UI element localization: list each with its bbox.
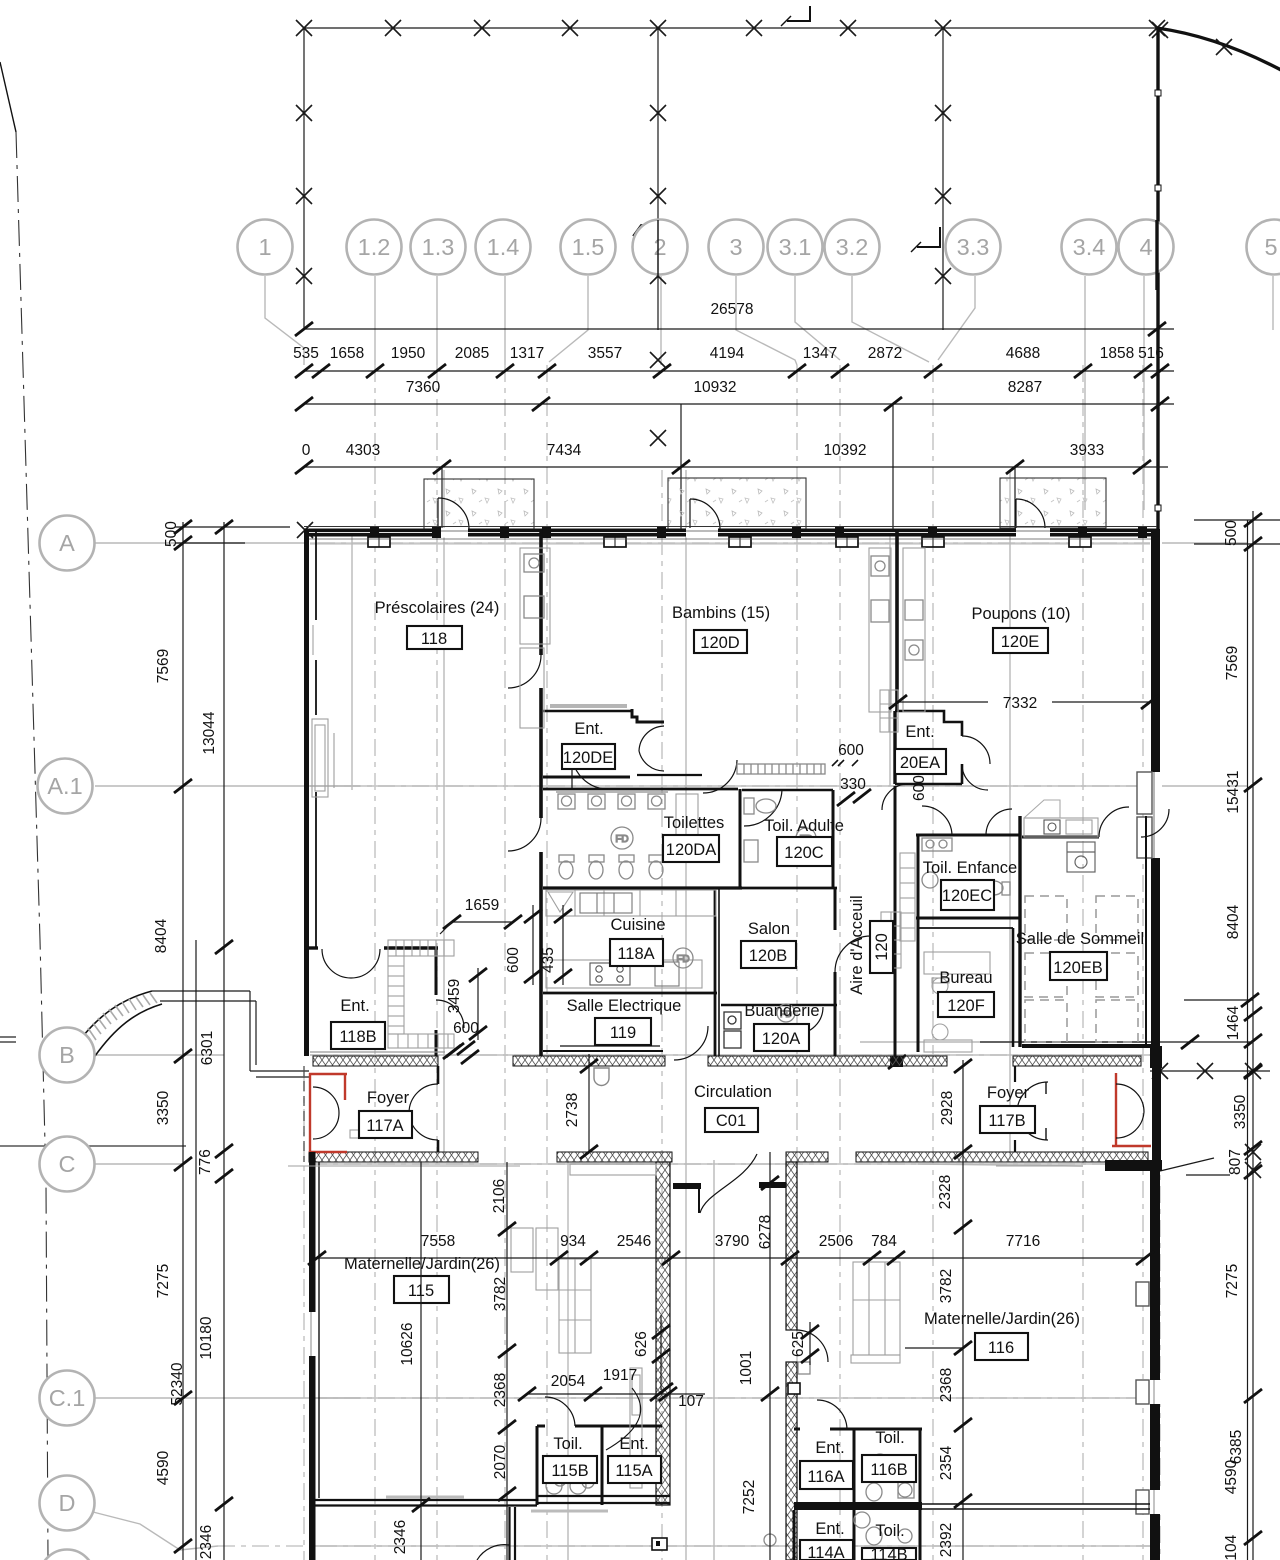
bubble 3.2 leader	[852, 276, 929, 362]
svg-text:4303: 4303	[346, 442, 380, 459]
west exterior wall	[304, 529, 309, 1056]
svg-text:15431: 15431	[1225, 770, 1242, 813]
svg-text:2928: 2928	[939, 1091, 956, 1125]
svg-text:3350: 3350	[155, 1090, 172, 1125]
svg-text:120: 120	[873, 933, 891, 961]
row bubble A.1	[38, 759, 93, 814]
grid bubble 4	[1119, 220, 1174, 275]
svg-text:114B: 114B	[870, 1546, 907, 1560]
svg-text:120F: 120F	[947, 997, 985, 1015]
door arcs 120DE butterfly	[639, 726, 664, 771]
doors 117A west	[313, 1087, 339, 1139]
Toil Adulte 120C walls	[742, 789, 833, 792]
bubble 2 leader	[660, 276, 662, 365]
row A.1 right gray	[1162, 785, 1248, 787]
dim 2054 1917 107	[527, 1393, 705, 1395]
row C leader gray	[95, 1163, 181, 1165]
row C.1 grid dashed	[310, 1397, 1150, 1399]
svg-text:934: 934	[560, 1233, 586, 1250]
row C right gray	[918, 1164, 1083, 1166]
vertical grid line 1.2	[374, 365, 376, 1560]
svg-text:625: 625	[790, 1331, 807, 1357]
door arc Bambins south	[703, 760, 737, 793]
crib icon 120EB	[1067, 842, 1095, 872]
svg-text:2346: 2346	[198, 1525, 215, 1559]
svg-text:2346: 2346	[392, 1520, 409, 1554]
svg-text:116A: 116A	[807, 1468, 844, 1486]
svg-text:20EA: 20EA	[900, 754, 940, 772]
svg-text:3933: 3933	[1070, 442, 1104, 459]
door arc below D	[477, 1545, 509, 1560]
door arcs 20EA	[962, 736, 990, 790]
bubble 1.5 leader	[549, 276, 588, 362]
top fence line	[304, 27, 1157, 29]
svg-text:120E: 120E	[1001, 633, 1040, 651]
svg-text:2054: 2054	[551, 1373, 586, 1390]
door arcs 120EB	[1099, 807, 1129, 837]
116 wing top corner wall	[1105, 1160, 1162, 1171]
svg-text:1917: 1917	[603, 1367, 637, 1384]
D row wall 115 wing	[315, 1499, 537, 1501]
115 wing counters	[559, 1164, 656, 1353]
vertical grid line 3	[796, 365, 798, 1560]
svg-text:C: C	[59, 1151, 76, 1177]
vertical grid line 1.4	[504, 365, 506, 1560]
dashed crib mats 120EB	[1025, 896, 1138, 1042]
row B inner gray	[860, 1041, 1160, 1043]
svg-text:1659: 1659	[465, 897, 499, 914]
svg-text:Ent.: Ent.	[815, 1439, 844, 1457]
door arc 116A	[817, 1400, 847, 1429]
svg-text:3790: 3790	[715, 1233, 750, 1250]
gray secondary vertical at 714 lower	[713, 1160, 715, 1560]
116A small marks	[764, 1362, 810, 1546]
svg-text:500: 500	[163, 521, 180, 547]
grille column left of 120EC	[900, 853, 915, 941]
svg-text:120D: 120D	[700, 634, 740, 652]
svg-text:Salle de Sommeil: Salle de Sommeil	[1016, 930, 1144, 948]
gray secondary vertical under canopy 1	[351, 530, 353, 790]
junction ticks at corridor west	[446, 1043, 464, 1057]
Ent 20EA walls	[895, 711, 962, 736]
row bubble C.1	[40, 1371, 95, 1426]
doors 117B east	[1116, 1084, 1144, 1138]
left dim line inner	[223, 522, 225, 1560]
Foyer 117B red fire wall	[1115, 1073, 1117, 1147]
vertical grid line right of east wall	[1159, 1050, 1161, 1560]
grid bubble 1	[238, 220, 293, 275]
svg-text:1317: 1317	[510, 345, 544, 362]
svg-text:Bureau: Bureau	[939, 969, 992, 987]
svg-text:114A: 114A	[807, 1544, 844, 1560]
rooms 114A 114B walls	[853, 1510, 856, 1560]
row bubble A	[40, 516, 95, 571]
left dim line outer	[182, 522, 184, 1560]
svg-text:Poupons (10): Poupons (10)	[971, 605, 1070, 623]
partition stub toilettes	[676, 794, 698, 854]
svg-text:7252: 7252	[741, 1480, 758, 1514]
gray secondary vertical at 444	[443, 470, 445, 1160]
svg-text:2328: 2328	[937, 1175, 954, 1209]
dim row 2 line	[304, 403, 1174, 405]
Salon 120B walls	[719, 887, 837, 890]
svg-text:120DA: 120DA	[666, 841, 716, 859]
casework right of partition 1.5	[520, 548, 550, 644]
dim 2928 2328 line	[962, 1060, 964, 1560]
svg-text:3.2: 3.2	[836, 234, 869, 260]
mid wall 116 wing	[794, 1502, 922, 1510]
svg-text:1.2: 1.2	[358, 234, 391, 260]
tiled strip poupons SW	[881, 912, 901, 968]
1464 dim line	[1184, 999, 1253, 1001]
svg-text:3782: 3782	[492, 1277, 509, 1311]
svg-text:1: 1	[258, 234, 271, 260]
doors 117A east	[409, 1084, 438, 1140]
vertical grid line 3.1	[839, 365, 841, 1560]
grid bubble 2	[633, 220, 688, 275]
grid bubble 1.3	[411, 220, 466, 275]
grid bubble 3.4	[1062, 220, 1117, 275]
svg-text:3557: 3557	[588, 345, 622, 362]
svg-text:120C: 120C	[784, 844, 824, 862]
svg-text:1.3: 1.3	[422, 234, 455, 260]
grid bubble 3.2	[825, 220, 880, 275]
svg-text:2368: 2368	[938, 1368, 955, 1402]
svg-text:6301: 6301	[199, 1031, 216, 1065]
Toilettes sinks	[556, 792, 668, 809]
short site wall marks left edge	[0, 1036, 16, 1038]
svg-text:330: 330	[840, 776, 866, 793]
east wall at foyer B	[1152, 1066, 1161, 1171]
svg-text:600: 600	[838, 742, 864, 759]
dim 625	[809, 1322, 811, 1365]
FD cuisine	[673, 948, 693, 968]
svg-text:1858: 1858	[1100, 345, 1134, 362]
door arc 120C	[744, 790, 782, 826]
row bubble E partial	[40, 1550, 95, 1560]
vertical grid line 1.3	[436, 365, 438, 1560]
Toil Enfance 120EC walls	[916, 834, 1019, 837]
svg-text:6278: 6278	[757, 1215, 774, 1249]
svg-text:C01: C01	[716, 1112, 746, 1130]
svg-text:Ent.: Ent.	[815, 1520, 844, 1538]
window bench 118 room west	[312, 719, 334, 797]
FD buanderie	[777, 1004, 795, 1022]
left dim line total	[195, 940, 197, 1560]
svg-text:4: 4	[1139, 234, 1152, 260]
svg-text:2354: 2354	[938, 1445, 955, 1480]
court wall stubs and patio door	[673, 1183, 701, 1189]
svg-text:Salle Electrique: Salle Electrique	[567, 997, 682, 1015]
overall dim 26578 line	[304, 328, 1174, 330]
site line at C left	[0, 1145, 186, 1147]
svg-text:120DE: 120DE	[563, 749, 613, 767]
svg-text:2106: 2106	[491, 1179, 508, 1213]
thick property line right	[1156, 28, 1159, 530]
window sill tabs below top wall	[368, 537, 1091, 547]
door arc toilettes	[572, 753, 608, 789]
grid bubble 1.5	[561, 220, 616, 275]
svg-text:4688: 4688	[1006, 345, 1040, 362]
row D grid dashed	[218, 1545, 1150, 1547]
svg-text:A.1: A.1	[47, 773, 82, 799]
svg-text:117B: 117B	[988, 1112, 1025, 1130]
svg-text:6385: 6385	[1228, 1430, 1245, 1464]
door arc 118 upper	[508, 655, 541, 688]
svg-text:Buanderie: Buanderie	[744, 1002, 819, 1020]
svg-text:10626: 10626	[399, 1322, 416, 1365]
svg-text:Toil.: Toil.	[553, 1435, 582, 1453]
svg-text:10932: 10932	[693, 379, 736, 396]
grid bubble 3	[709, 220, 764, 275]
svg-text:Foyer: Foyer	[987, 1084, 1030, 1102]
vertical grid line 3.2	[932, 365, 934, 1560]
FD drain toilettes	[611, 827, 633, 849]
FD toil adulte	[796, 828, 816, 848]
svg-text:8404: 8404	[1225, 904, 1242, 939]
116 wing east exterior wall	[1150, 1171, 1160, 1560]
Ent 120DE room walls	[543, 710, 632, 713]
svg-text:2506: 2506	[819, 1233, 853, 1250]
svg-text:10180: 10180	[198, 1316, 215, 1359]
svg-text:600: 600	[453, 1020, 479, 1037]
svg-text:1001: 1001	[738, 1351, 755, 1385]
svg-text:7360: 7360	[406, 379, 441, 396]
svg-text:117A: 117A	[366, 1117, 403, 1135]
Salle de Sommeil 120EB walls	[1018, 816, 1021, 1047]
canopy vestibule 3	[1000, 478, 1106, 528]
svg-text:1347: 1347	[803, 345, 837, 362]
canopy vestibule 1	[424, 479, 534, 529]
svg-text:FD: FD	[676, 954, 689, 965]
svg-text:26578: 26578	[710, 301, 753, 318]
svg-text:Cuisine: Cuisine	[610, 916, 665, 934]
grid bubble 1.2	[347, 220, 402, 275]
svg-text:Toilettes: Toilettes	[664, 814, 725, 832]
row bubble C	[40, 1137, 95, 1192]
partition grid1.5 wall	[539, 529, 543, 655]
bubble 4 leader	[1143, 276, 1145, 510]
casework Poupons side	[903, 548, 925, 712]
svg-text:1.4: 1.4	[487, 234, 520, 260]
Cuisine top counter	[546, 890, 716, 916]
site vertical line at grid 2	[657, 28, 659, 330]
right dim line	[1252, 511, 1254, 1560]
115 wing east wall	[656, 1162, 670, 1505]
svg-text:Ent.: Ent.	[574, 720, 603, 738]
door arc 118B east	[436, 1000, 464, 1028]
Toil 115B / Ent 115A walls	[537, 1425, 545, 1428]
Cuisine low counter and stove	[546, 960, 702, 988]
bubble 1.4 leader	[504, 276, 506, 365]
svg-text:7275: 7275	[155, 1264, 172, 1298]
svg-text:1464: 1464	[1225, 1005, 1242, 1040]
svg-text:Toil.: Toil.	[875, 1522, 904, 1540]
C row right small line	[1186, 1174, 1230, 1176]
svg-text:Maternelle/Jardin(26): Maternelle/Jardin(26)	[924, 1310, 1080, 1328]
bubble 5 leader	[1272, 276, 1274, 330]
115 wing west wall	[309, 1152, 316, 1560]
svg-text:516: 516	[1138, 345, 1164, 362]
entry mat 120	[737, 764, 825, 774]
walk lines to entry	[152, 990, 250, 992]
ramp curved hatch	[79, 991, 152, 1041]
row A.1 grid dashed	[310, 785, 1150, 787]
row A leader gray	[95, 542, 304, 544]
Bureau 120F walls	[918, 927, 1013, 929]
butterfly doors 118B	[322, 949, 380, 978]
row B grid dashed	[310, 1054, 1150, 1056]
svg-text:52340: 52340	[169, 1362, 186, 1405]
116 wing west wall	[786, 1162, 797, 1330]
svg-text:1950: 1950	[391, 345, 426, 362]
door arc Salon	[835, 936, 871, 972]
svg-text:A: A	[59, 530, 75, 556]
row C grid dashed	[310, 1163, 1150, 1165]
svg-text:118A: 118A	[617, 945, 654, 963]
svg-text:3.1: 3.1	[779, 234, 812, 260]
vertical grid line 1 below building	[303, 1075, 305, 1560]
svg-text:120A: 120A	[762, 1030, 801, 1048]
114B fixtures	[854, 1512, 912, 1545]
svg-text:Circulation: Circulation	[694, 1083, 772, 1101]
svg-text:Préscolaires (24): Préscolaires (24)	[375, 599, 500, 617]
Cuisine / Salle Electrique walls	[543, 992, 717, 995]
svg-text:118: 118	[421, 630, 447, 648]
dim row 3 line	[304, 466, 1168, 468]
svg-text:Aire d'Acceuil: Aire d'Acceuil	[848, 895, 866, 994]
svg-text:8404: 8404	[153, 918, 170, 953]
rooms 116A 116B walls	[794, 1428, 800, 1431]
bubble 3.4 leader	[1084, 276, 1086, 510]
Foyer 117A red fire walls	[309, 1073, 347, 1153]
dim 7332	[898, 701, 988, 703]
grid bubble 3.1	[768, 220, 823, 275]
cubbies right of 118B (C-shape casework)	[388, 940, 454, 1048]
corridor south wall hatched	[309, 1152, 1148, 1162]
gray sill marks lower corridor	[288, 1130, 520, 1166]
svg-text:B: B	[59, 1042, 75, 1068]
svg-text:626: 626	[633, 1331, 650, 1357]
Toil adulte fixtures	[744, 798, 801, 862]
svg-text:119: 119	[610, 1024, 636, 1042]
wall below D	[508, 1507, 510, 1560]
vertical grid line 1.5	[546, 365, 548, 1560]
svg-text:784: 784	[871, 1233, 897, 1250]
115 room window bench	[630, 1368, 642, 1488]
svg-text:2738: 2738	[564, 1093, 581, 1127]
vertical grid line 3.3	[1082, 365, 1084, 1560]
svg-text:535: 535	[293, 345, 319, 362]
site vertical line at grid 1	[303, 28, 305, 330]
door gaps in top wall	[434, 528, 1050, 538]
svg-text:6104: 6104	[1223, 1534, 1240, 1560]
svg-text:FD: FD	[615, 834, 628, 845]
Foyer 117A east wall	[437, 1066, 440, 1084]
witness verticals into canopies	[441, 467, 443, 529]
dim 10626 column	[420, 1162, 422, 1560]
svg-text:120B: 120B	[749, 947, 788, 965]
svg-text:116B: 116B	[870, 1461, 907, 1479]
door arc Salle Electrique	[674, 1026, 708, 1060]
left witness line at top	[175, 526, 290, 528]
vertical grid line 4	[1142, 365, 1144, 1560]
svg-text:115A: 115A	[615, 1462, 652, 1480]
grid bubble 1.4	[476, 220, 531, 275]
top exterior wall row A	[304, 529, 1157, 537]
svg-text:7275: 7275	[1224, 1264, 1241, 1298]
bubble 3.1 leader	[795, 276, 840, 360]
bubble 3.3 leader	[938, 276, 975, 360]
B row right line with crosses	[1150, 1070, 1270, 1072]
gray secondary vertical at 590 lower	[567, 1160, 569, 1560]
svg-text:3782: 3782	[938, 1269, 955, 1303]
pilaster at C row	[788, 1383, 800, 1394]
right witness lines top	[1194, 519, 1280, 521]
svg-text:2872: 2872	[868, 345, 902, 362]
bubble 1.3 leader	[436, 276, 438, 365]
svg-text:Ent.: Ent.	[905, 723, 934, 741]
dim row under corridor	[317, 1257, 1145, 1259]
svg-text:8287: 8287	[1008, 379, 1042, 396]
116 wing casework	[851, 1262, 900, 1363]
row A.1 leader gray	[95, 785, 360, 787]
casework Bambins side	[869, 548, 891, 712]
svg-text:120EB: 120EB	[1053, 959, 1103, 977]
corridor sill gray	[996, 1165, 1083, 1167]
svg-text:0: 0	[302, 442, 311, 459]
svg-text:5: 5	[1264, 234, 1277, 260]
bubble 3 leader	[736, 276, 797, 365]
door arcs 120EC	[922, 806, 952, 835]
svg-text:3.3: 3.3	[957, 234, 990, 260]
svg-text:776: 776	[197, 1149, 214, 1175]
property thick curve top right	[1157, 28, 1280, 70]
svg-text:3: 3	[729, 234, 742, 260]
svg-text:2: 2	[653, 234, 666, 260]
door arc 116 west	[796, 1330, 828, 1362]
svg-text:10392: 10392	[823, 442, 866, 459]
dim 626	[660, 1315, 662, 1390]
svg-text:4590: 4590	[155, 1450, 172, 1485]
grid bubble 3.3	[946, 220, 1001, 275]
row B leader gray	[95, 1054, 224, 1056]
row C.1 leader gray	[95, 1397, 360, 1399]
115B fixtures	[546, 1474, 594, 1494]
svg-text:807: 807	[1227, 1149, 1244, 1175]
svg-text:7716: 7716	[1006, 1233, 1040, 1250]
row bubble D	[40, 1476, 95, 1531]
section marker near bubble 2	[633, 225, 657, 237]
bubble 1 leader	[265, 276, 304, 365]
section marker mid	[917, 227, 940, 247]
dim 2738	[588, 1054, 590, 1152]
east exterior wall upper	[1151, 529, 1160, 1048]
site vertical line at grid 3.2	[942, 28, 944, 330]
svg-text:116: 116	[988, 1339, 1014, 1357]
corner cross NW	[297, 522, 313, 538]
svg-text:435: 435	[540, 947, 557, 973]
canopy vestibule 2	[668, 478, 806, 529]
svg-text:Salon: Salon	[748, 920, 790, 938]
partition Bambins/Poupons	[895, 529, 899, 711]
grid bubble 5	[1247, 220, 1280, 275]
counter top 120EB	[1024, 800, 1098, 837]
Toilettes 120DA walls	[543, 788, 738, 791]
bubble 1.2 leader	[374, 276, 376, 365]
svg-text:7569: 7569	[1224, 646, 1241, 680]
svg-text:Bambins (15): Bambins (15)	[672, 604, 770, 622]
